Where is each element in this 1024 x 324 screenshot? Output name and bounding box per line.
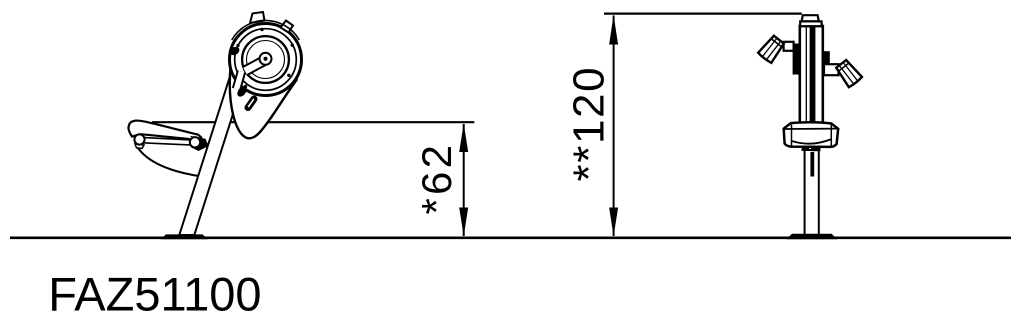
svg-text:**120: **120 [564,66,613,182]
svg-text:*62: *62 [413,142,460,215]
svg-text:FAZ51100: FAZ51100 [48,267,261,320]
